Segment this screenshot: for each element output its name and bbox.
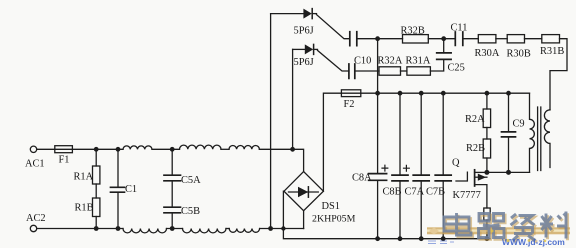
svg-text:C11: C11 — [451, 23, 468, 34]
node rail C7A — [419, 91, 424, 96]
inductor L2 bottom — [183, 229, 226, 233]
svg-text:C7B: C7B — [426, 187, 445, 198]
watermark yellow flecks — [491, 230, 547, 243]
wire choke gap top — [152, 148, 180, 150]
resistor R30A — [478, 35, 496, 43]
wire R31B to secondary — [550, 39, 567, 110]
inductor T1 primary — [530, 93, 535, 172]
resistor R32B — [403, 35, 429, 43]
wire AC2 lead — [37, 228, 123, 230]
capacitor C12 row1 — [350, 32, 357, 46]
wire R30B to R31B — [525, 38, 542, 40]
node rail C8A — [375, 91, 380, 96]
wire AC1 lead to F1 — [37, 148, 55, 150]
bridge rectifier DS1 — [284, 172, 323, 211]
svg-text:Q: Q — [452, 158, 460, 169]
wire bottom gap — [167, 228, 183, 230]
capacitor C10 — [349, 64, 355, 78]
capacitor C9 — [508, 93, 510, 132]
wire bridge right corner up to F2 rail — [323, 93, 341, 191]
transformer core — [538, 107, 541, 171]
svg-text:AC1: AC1 — [25, 159, 45, 170]
capacitor C7A — [420, 93, 422, 175]
terminal AC2 — [30, 225, 36, 231]
svg-text:C5B: C5B — [181, 206, 200, 217]
inductor L3 bottom — [229, 229, 259, 233]
node AC2 crossing blob — [281, 226, 285, 230]
node top rail to snubber — [290, 147, 295, 152]
plus mark C8A — [382, 165, 388, 171]
svg-text:R2B: R2B — [466, 143, 485, 154]
capacitor C8A — [377, 93, 379, 173]
inductor T1 secondary — [544, 110, 550, 168]
node drain — [484, 170, 489, 175]
wire snubber row2 vertical — [292, 49, 294, 149]
resistor R32A — [379, 67, 401, 75]
watermark gold stripe — [427, 227, 570, 234]
node DC minus C8A — [375, 236, 380, 241]
wire L2-L3 gap bottom — [226, 228, 229, 230]
svg-text:R30B: R30B — [507, 49, 531, 60]
inductor L2 top — [180, 145, 222, 149]
resistor R1B — [93, 198, 100, 217]
svg-text:C8A: C8A — [352, 173, 372, 184]
wire top rail to bridge — [259, 149, 303, 171]
svg-text:R31B: R31B — [540, 46, 564, 57]
svg-text:R32A: R32A — [378, 56, 403, 67]
diode D1 5P6J — [303, 9, 311, 19]
wire drain node to primary bottom — [487, 171, 530, 173]
svg-text:R1B: R1B — [75, 203, 94, 214]
node R1A top — [94, 147, 99, 152]
svg-text:C9: C9 — [513, 119, 525, 130]
plus mark C8B — [404, 165, 410, 171]
resistor source sense — [484, 208, 490, 220]
wire R32B to C11 — [428, 38, 455, 40]
capacitor C8B — [399, 93, 401, 175]
capacitor C5A — [171, 149, 173, 175]
node DC minus source — [485, 236, 490, 241]
node row1 vertical — [375, 36, 380, 41]
wire snubber left vertical — [270, 14, 272, 229]
svg-text:R1A: R1A — [74, 172, 94, 183]
inductor L3 top — [229, 146, 259, 150]
resistor R1A — [95, 149, 97, 166]
svg-text:2KHP05M: 2KHP05M — [312, 214, 356, 225]
wire R32A to R31A — [401, 70, 407, 72]
svg-text:C7A: C7A — [405, 187, 425, 198]
terminal AC1 — [30, 146, 36, 152]
wire C10 to R32A — [355, 70, 379, 72]
capacitor C7B — [442, 93, 444, 175]
resistor R31A — [407, 67, 431, 75]
wire R1A to R1B — [95, 184, 97, 198]
svg-text:5P6J: 5P6J — [294, 26, 314, 37]
node C25 top — [441, 36, 446, 41]
node C9 bottom — [506, 170, 511, 175]
svg-text:R2A: R2A — [465, 114, 485, 125]
svg-text:C1: C1 — [125, 184, 137, 195]
wire C11 to R30A — [463, 38, 479, 40]
wire L2-L3 gap top — [221, 148, 229, 150]
diode D2 5P6J — [305, 44, 313, 54]
svg-text:K7777: K7777 — [453, 190, 481, 201]
svg-text:C10: C10 — [354, 56, 371, 67]
svg-text:DS1: DS1 — [322, 201, 340, 212]
inductor L1 top — [123, 146, 152, 149]
node DC minus C7B — [441, 236, 446, 241]
watermark characters — [444, 212, 567, 241]
wire D2 diagonal — [318, 50, 349, 71]
wire D1 diagonal — [317, 15, 350, 39]
transistor Q K7777 — [456, 172, 467, 181]
node rail C8B — [398, 91, 403, 96]
bridge inner diode — [289, 191, 319, 193]
node AC2 snubber vertical — [268, 226, 273, 231]
node rail C7B — [441, 91, 446, 96]
capacitor C5B — [164, 207, 181, 213]
node C1 bottom — [116, 226, 121, 231]
svg-text:C8B: C8B — [383, 187, 402, 198]
svg-text:C25: C25 — [448, 63, 465, 74]
svg-text:AC2: AC2 — [26, 213, 46, 224]
svg-text:F2: F2 — [344, 99, 355, 110]
svg-text:5P6J: 5P6J — [294, 57, 314, 68]
wire C5A to C5B — [171, 181, 173, 207]
wire AC2 rail to bridge — [260, 228, 304, 230]
node C5B bottom — [170, 226, 175, 231]
svg-text:R31A: R31A — [406, 56, 431, 67]
svg-text:F1: F1 — [59, 155, 70, 166]
fuse F2 — [341, 90, 360, 97]
wire bridge left corner to DC minus — [283, 191, 490, 239]
wire R30A to R30B — [496, 38, 507, 40]
wire snubber row1 lead — [271, 13, 304, 15]
watermark character tan shadow — [446, 213, 569, 242]
wire bridge bottom to AC2 — [303, 211, 305, 229]
resistor R31B — [542, 35, 560, 43]
resistor R2B — [483, 139, 490, 158]
node rail R2A — [485, 91, 490, 96]
node C1 top — [116, 147, 121, 152]
capacitor C1 — [117, 149, 119, 187]
node R1B bottom — [94, 226, 99, 231]
svg-text:C5A: C5A — [181, 175, 201, 186]
wire C12 to R32B — [357, 38, 403, 40]
node DC minus C8B — [398, 236, 403, 241]
svg-text:WWW.jd-zj.com: WWW.jd-zj.com — [502, 237, 565, 247]
resistor R30B — [507, 35, 524, 43]
wire row1 vertical down to DC rail — [377, 39, 379, 93]
node C5A top — [170, 147, 175, 152]
wire DC plus rail — [361, 92, 530, 94]
wire R2A to R2B — [486, 128, 488, 140]
wire F1 to chokes — [72, 148, 123, 150]
node rail C9 — [506, 91, 511, 96]
svg-text:R32B: R32B — [401, 26, 425, 37]
node DC minus C7A — [419, 236, 424, 241]
fuse F1 — [55, 146, 73, 153]
wire R31A to C25 — [430, 59, 443, 71]
resistor R2A — [486, 93, 488, 109]
wire row2 lead — [293, 48, 305, 50]
inductor L1 bottom — [123, 229, 166, 233]
svg-text:R30A: R30A — [475, 48, 500, 59]
capacitor C25 — [437, 53, 451, 60]
capacitor C11 — [455, 32, 463, 45]
watermark small marks — [428, 241, 454, 244]
